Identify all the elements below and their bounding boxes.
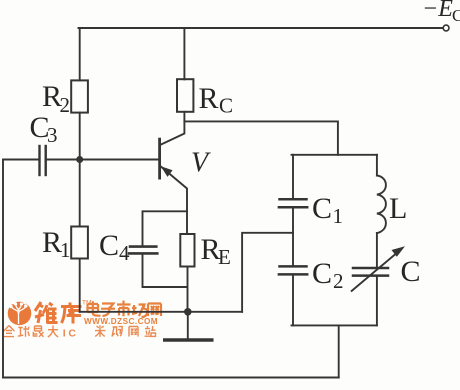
resistor R2 [71,80,88,112]
wire C3 right to base [47,159,159,161]
svg-text:2: 2 [333,269,344,293]
wire RC top [183,28,185,79]
watermark weiku logo [8,301,32,325]
svg-text:V: V [191,148,211,179]
wire top supply rail [79,27,444,29]
svg-text:2: 2 [60,93,71,117]
svg-text:−E: −E [422,0,453,22]
wire RC bottom to collector [160,112,184,145]
svg-text:E: E [218,245,231,269]
svg-text:IC: IC [63,328,79,340]
wire C2 bottom [292,276,294,326]
wire tank left top to C1 [292,155,294,198]
svg-text:C: C [452,6,460,25]
wire bottom horizontal R1 to tap [80,311,242,313]
wire bottom rail [3,377,339,379]
watermark quanqiu zuida IC caigou wangzhan [4,326,59,338]
transistor V base bar [158,139,161,178]
transistor V emitter with arrow [161,167,187,235]
wire R2 top [79,28,81,80]
capacitor C2 plates [280,265,307,268]
svg-text:WWW.DZSC.COM: WWW.DZSC.COM [84,317,158,326]
wire tank top [292,154,377,156]
wire left rail vertical [2,160,4,378]
svg-text:3: 3 [47,123,58,147]
watermark text dianzishichangwang (电子市场网) [88,301,162,318]
svg-text:C: C [219,94,233,118]
terminal -Ec circle [443,25,449,31]
svg-text:R: R [42,226,62,259]
wire R1 bottom [79,259,81,312]
svg-text:L: L [389,192,407,225]
wire RE bottom to ground node [187,267,189,312]
resistor R1 [71,227,88,259]
wire base node to R1 [79,160,81,227]
resistor RC [177,79,193,112]
watermark text weiku (维库) [35,302,82,324]
node ground junction dot [184,308,192,316]
svg-text:1: 1 [60,238,71,262]
node base junction dot [76,156,83,163]
wire C1 to C2 [292,208,294,265]
svg-text:1: 1 [333,204,344,228]
wire C4 bottom bracket [143,255,188,287]
wire C bottom [376,277,378,326]
svg-text:R: R [199,82,219,115]
ground [187,312,189,340]
capacitor C1 plates [280,198,307,201]
svg-text:C: C [312,257,332,290]
wire tank right top to L [376,155,378,176]
wire tank bottom [292,324,377,326]
inductor L [377,176,386,234]
svg-text:4: 4 [119,241,130,265]
capacitor C3 plates [38,146,40,175]
wire collector node to tank top [184,121,338,154]
wire tank bottom drop [338,325,340,377]
svg-text:C: C [401,255,421,288]
wire tap between C1 C2 to bottom [242,233,293,312]
variable capacitor arrow [352,252,399,291]
wire L to C [376,233,378,267]
wire C4 top bracket [143,211,188,245]
svg-text:C: C [312,192,332,225]
resistor RE [180,234,194,267]
svg-text:C: C [99,229,119,262]
wire R2 bottom to base node [79,113,81,160]
wire C3 left to left rail [3,159,38,161]
variable capacitor C plates [353,267,388,270]
capacitor C4 plates [130,245,156,248]
